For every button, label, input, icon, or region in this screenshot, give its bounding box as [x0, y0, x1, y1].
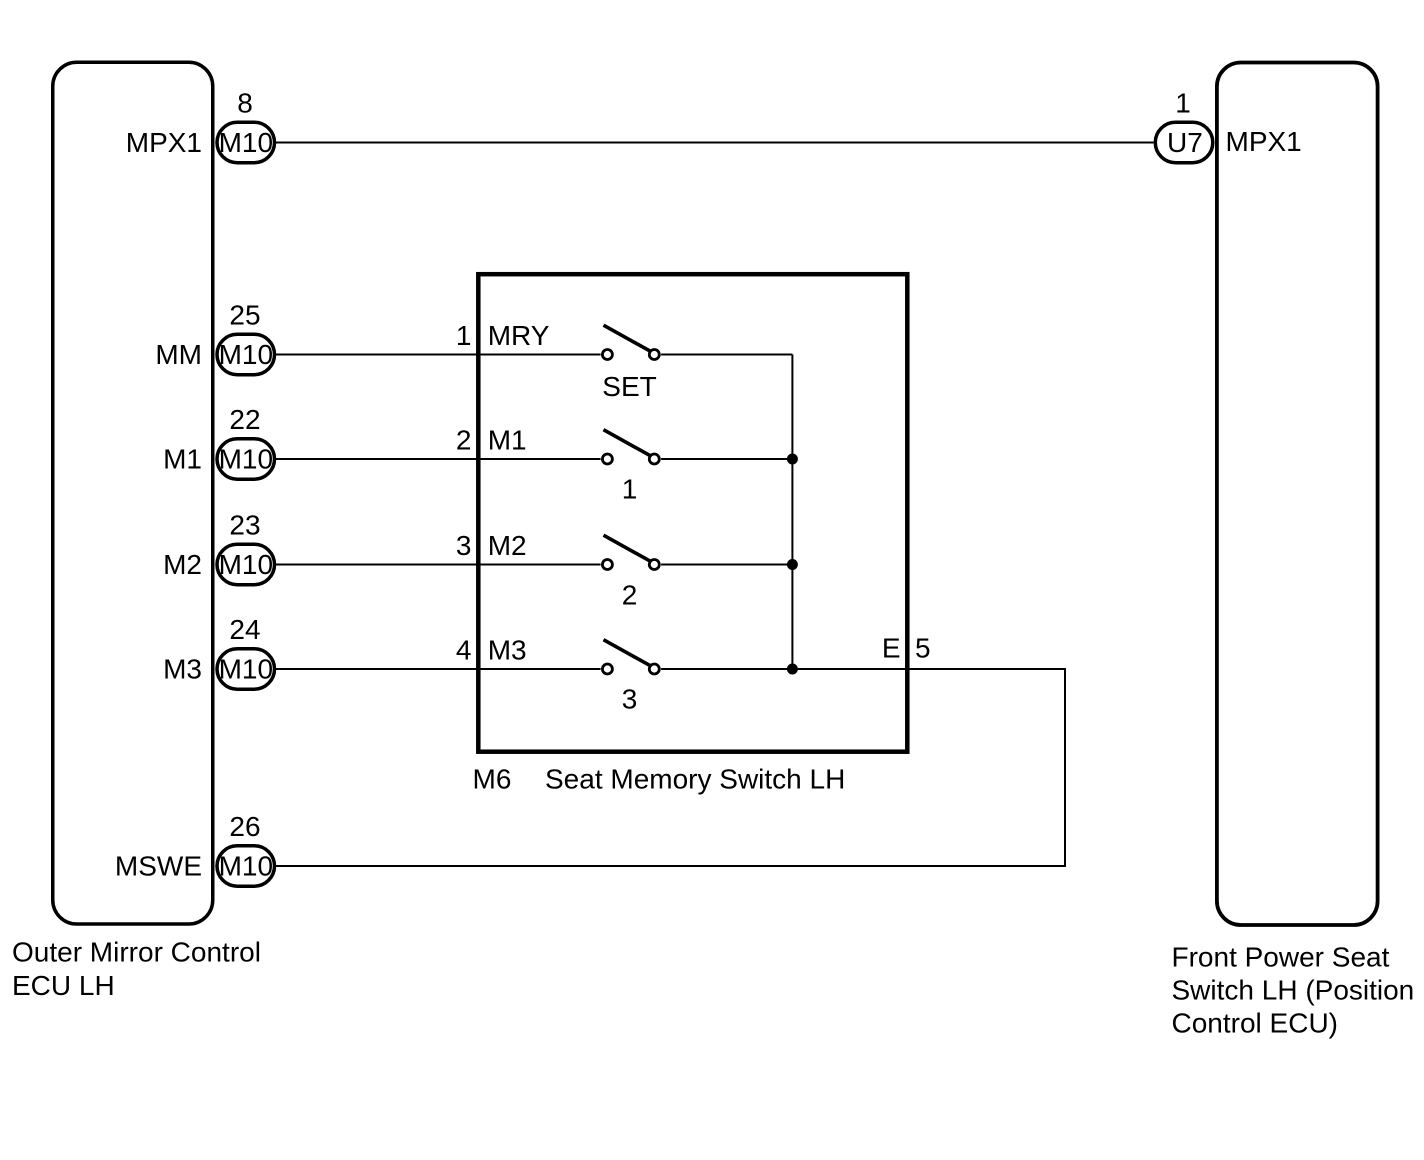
- svg-text:8: 8: [237, 88, 253, 119]
- svg-text:5: 5: [915, 633, 931, 664]
- svg-text:M10: M10: [219, 339, 273, 370]
- svg-text:M1: M1: [488, 425, 527, 456]
- svg-text:M10: M10: [219, 654, 273, 685]
- svg-text:Switch LH (Position: Switch LH (Position: [1172, 974, 1415, 1005]
- svg-text:Front Power Seat: Front Power Seat: [1172, 941, 1390, 972]
- svg-text:M3: M3: [163, 654, 202, 685]
- svg-text:M10: M10: [219, 127, 273, 158]
- svg-text:1: 1: [1175, 88, 1191, 119]
- svg-text:U7: U7: [1167, 127, 1203, 158]
- svg-text:M6: M6: [473, 764, 512, 795]
- svg-text:4: 4: [456, 635, 472, 666]
- svg-text:Outer Mirror Control: Outer Mirror Control: [12, 937, 261, 968]
- svg-text:1: 1: [622, 473, 638, 504]
- svg-text:M10: M10: [219, 444, 273, 475]
- svg-text:M10: M10: [219, 549, 273, 580]
- svg-text:1: 1: [456, 320, 472, 351]
- svg-text:2: 2: [456, 425, 472, 456]
- svg-text:M2: M2: [163, 549, 202, 580]
- svg-text:ECU LH: ECU LH: [12, 970, 115, 1001]
- svg-text:22: 22: [229, 404, 260, 435]
- svg-text:MPX1: MPX1: [126, 127, 202, 158]
- svg-text:M3: M3: [488, 635, 527, 666]
- svg-text:24: 24: [229, 614, 260, 645]
- svg-text:SET: SET: [602, 371, 656, 402]
- svg-text:MRY: MRY: [488, 320, 550, 351]
- svg-text:25: 25: [229, 300, 260, 331]
- svg-text:M2: M2: [488, 530, 527, 561]
- svg-text:3: 3: [622, 684, 638, 715]
- svg-text:26: 26: [229, 811, 260, 842]
- svg-text:Control ECU): Control ECU): [1172, 1007, 1338, 1038]
- svg-text:23: 23: [229, 510, 260, 541]
- svg-text:M1: M1: [163, 444, 202, 475]
- svg-text:MSWE: MSWE: [115, 851, 202, 882]
- svg-text:E: E: [882, 633, 901, 664]
- svg-text:3: 3: [456, 530, 472, 561]
- svg-text:Seat Memory Switch LH: Seat Memory Switch LH: [545, 764, 845, 795]
- svg-text:MPX1: MPX1: [1226, 126, 1302, 157]
- svg-text:2: 2: [622, 580, 638, 611]
- svg-text:M10: M10: [219, 851, 273, 882]
- svg-text:MM: MM: [155, 339, 202, 370]
